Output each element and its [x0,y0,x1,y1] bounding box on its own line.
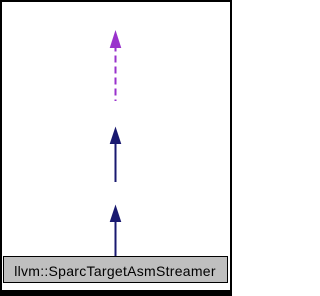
arrow A2 (solid inheritance edge, midnightblue) [110,127,122,183]
frame right [230,0,232,296]
svg-text:llvm::SparcTargetAsmStreamer: llvm::SparcTargetAsmStreamer [14,263,216,279]
frame bottom [0,290,232,296]
frame left [0,0,2,296]
arrow A1 (dashed usage edge, darkorchid) [110,30,122,101]
node llvm::SparcTargetAsmStreamer [4,257,228,283]
frame top [0,0,232,2]
arrow A3 (solid inheritance edge, midnightblue) [110,205,122,258]
